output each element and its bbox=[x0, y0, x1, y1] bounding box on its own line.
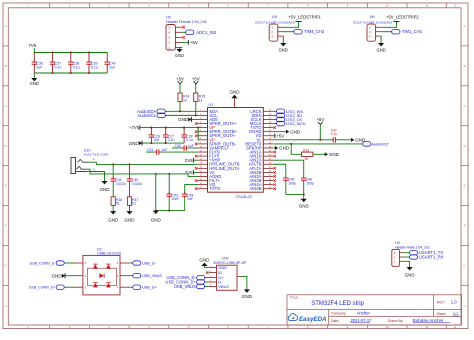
no-connect marks U3 right bbox=[273, 126, 276, 190]
svg-text:USB_D-: USB_D- bbox=[142, 261, 156, 265]
diode D2c bbox=[93, 283, 98, 288]
audio jack U10 KLS1-TSJ2-3-009 bbox=[71, 149, 108, 174]
ground bbox=[376, 43, 385, 52]
rev cell bbox=[437, 300, 457, 305]
no-connect ID pin bbox=[206, 271, 209, 274]
svg-text:1k: 1k bbox=[199, 99, 203, 103]
svg-text:GND: GND bbox=[175, 53, 184, 58]
junction bbox=[195, 114, 197, 116]
svg-text:100p: 100p bbox=[306, 181, 314, 185]
net port I2S3_WS bbox=[273, 109, 303, 114]
svg-text:0.1u: 0.1u bbox=[186, 138, 193, 142]
svg-text:GND: GND bbox=[230, 90, 241, 95]
svg-text:GND: GND bbox=[129, 141, 140, 146]
capacitor C42 bbox=[127, 164, 143, 186]
svg-text:0k: 0k bbox=[305, 157, 309, 161]
net port ADC1_IN3 bbox=[186, 30, 217, 35]
capacitor C46 bbox=[301, 178, 314, 195]
svg-text:+5V: +5V bbox=[316, 117, 324, 122]
svg-text:USB_D+: USB_D+ bbox=[142, 286, 156, 290]
drawn by cell bbox=[388, 318, 451, 323]
net port USB_VBUS at CN7 bbox=[174, 284, 209, 289]
junctions on +7V5 rail bbox=[150, 127, 199, 129]
svg-text:KLS1-TSJ2-3-009: KLS1-TSJ2-3-009 bbox=[84, 152, 108, 156]
no-connect marks U3 left bbox=[195, 122, 198, 190]
svg-text:AIN4B: AIN4B bbox=[249, 186, 261, 191]
svg-text:5: 5 bbox=[168, 26, 170, 30]
svg-text:+5V: +5V bbox=[190, 40, 198, 45]
connector U5 DG127-5.0-03P bbox=[255, 15, 294, 41]
capacitor C30 bbox=[172, 144, 198, 151]
junction bbox=[303, 194, 305, 196]
svg-text:U6: U6 bbox=[370, 15, 375, 19]
ground bbox=[151, 211, 162, 223]
svg-text:C: C bbox=[5, 104, 7, 108]
sheet cell bbox=[437, 311, 460, 316]
svg-text:100p: 100p bbox=[288, 181, 296, 185]
svg-text:1: 1 bbox=[168, 46, 170, 50]
junctions bbox=[155, 173, 171, 175]
svg-text:0.1u: 0.1u bbox=[91, 65, 98, 69]
svg-text:GND: GND bbox=[279, 146, 290, 151]
svg-text:A: A bbox=[5, 24, 7, 28]
junction bbox=[290, 143, 292, 145]
svg-text:0.1u: 0.1u bbox=[55, 65, 62, 69]
power flag +7V5 bbox=[129, 125, 140, 130]
svg-text:USB_CONN_D+: USB_CONN_D+ bbox=[29, 286, 56, 290]
ground bbox=[108, 211, 119, 223]
wire bbox=[182, 41, 188, 43]
company cell bbox=[331, 311, 370, 316]
ground bbox=[125, 211, 136, 223]
capacitor C26 bbox=[149, 128, 160, 144]
ground flipped above U3 bbox=[230, 90, 241, 99]
svg-text:1k: 1k bbox=[183, 99, 187, 103]
svg-text:1uF: 1uF bbox=[109, 65, 115, 69]
svg-text:E: E bbox=[464, 184, 466, 188]
svg-text:GND: GND bbox=[242, 294, 253, 299]
net port USB_D- bbox=[129, 261, 156, 266]
resistor R14 bbox=[178, 84, 190, 112]
svg-text:ADC1_IN3: ADC1_IN3 bbox=[196, 30, 217, 35]
svg-text:E: E bbox=[5, 184, 7, 188]
wire bbox=[273, 160, 303, 178]
svg-text:Bohdan Ancher: Bohdan Ancher bbox=[413, 318, 444, 323]
wire bbox=[156, 210, 185, 212]
svg-text:GND: GND bbox=[329, 152, 340, 157]
svg-text:C30: C30 bbox=[175, 144, 181, 148]
svg-text:51: 51 bbox=[132, 202, 136, 206]
svg-text:0.1u: 0.1u bbox=[331, 132, 338, 136]
svg-text:Date:: Date: bbox=[331, 319, 339, 323]
wire bbox=[142, 142, 184, 144]
power flag 2V5 bbox=[185, 170, 198, 175]
ground flag decoupling bbox=[129, 141, 142, 146]
wire jack tip to HP/LINE_OUTB bbox=[88, 162, 198, 164]
svg-text:U3: U3 bbox=[209, 103, 214, 107]
ground bbox=[299, 195, 310, 209]
svg-text:0.1u: 0.1u bbox=[73, 65, 80, 69]
svg-text:A: A bbox=[464, 24, 466, 28]
diode D2d bbox=[106, 283, 111, 288]
wire bbox=[282, 36, 284, 43]
wire bbox=[155, 174, 157, 211]
wire bbox=[34, 52, 107, 54]
capacitor C45 bbox=[283, 178, 296, 195]
capacitor C40 bbox=[105, 53, 116, 74]
wire jack ring to AGND bbox=[85, 169, 198, 176]
no-connect pin 3 bbox=[182, 36, 185, 39]
svg-text:C31: C31 bbox=[147, 148, 153, 152]
ground flag D2 pin2 bbox=[52, 273, 74, 278]
wire bbox=[273, 139, 331, 141]
capacitor C47 bbox=[331, 128, 338, 142]
power flag +5V bbox=[188, 40, 198, 45]
svg-text:STM32F4 LED strip: STM32F4 LED strip bbox=[311, 301, 364, 307]
svg-text:H2: H2 bbox=[166, 15, 171, 19]
svg-text:GND: GND bbox=[100, 187, 111, 192]
svg-text:U5: U5 bbox=[272, 15, 277, 19]
wire CN7 shield bbox=[242, 276, 247, 289]
power flag +5V for R14 bbox=[176, 76, 184, 83]
svg-text:EasyEDA: EasyEDA bbox=[299, 316, 327, 323]
svg-text:4: 4 bbox=[168, 31, 170, 35]
ground bbox=[279, 43, 288, 52]
capacitor C27 bbox=[163, 128, 175, 144]
svg-text:Drawn By:: Drawn By: bbox=[388, 319, 404, 323]
svg-text:0.022u: 0.022u bbox=[132, 182, 142, 186]
capacitor C44 bbox=[182, 185, 198, 211]
svg-text:1/1: 1/1 bbox=[453, 311, 459, 316]
svg-text:TIM1_CH1: TIM1_CH1 bbox=[402, 29, 423, 34]
net port I2S3_CK bbox=[273, 117, 302, 122]
svg-text:CS43L22: CS43L22 bbox=[236, 194, 252, 199]
power flag +5V for R15 bbox=[192, 76, 200, 83]
ground H3 bbox=[405, 267, 416, 277]
resistor R15 bbox=[194, 84, 206, 116]
ground flag VL bbox=[351, 138, 366, 143]
svg-text:R13: R13 bbox=[303, 148, 309, 152]
wire CN7 GND pin bbox=[204, 266, 208, 267]
ground bbox=[100, 181, 111, 192]
svg-text:+7V5: +7V5 bbox=[129, 125, 140, 130]
connector H2 Header-Female 2.54_1x5 bbox=[166, 15, 207, 50]
net port AudioSCL bbox=[137, 113, 197, 118]
junctions bbox=[150, 142, 166, 144]
resistor R17 bbox=[127, 184, 138, 211]
capacitor C31 bbox=[146, 148, 198, 155]
svg-text:1uF: 1uF bbox=[162, 148, 168, 152]
svg-text:TIM4_CH2: TIM4_CH2 bbox=[304, 29, 325, 34]
ground flipped CN7 bbox=[199, 257, 210, 266]
svg-text:TITLE:: TITLE: bbox=[290, 296, 299, 300]
connector CN7 MICRO-USB-9P-5P bbox=[209, 257, 247, 291]
net port AudioSDA bbox=[137, 109, 198, 114]
power flag +5V_LEDSTRIP1 bbox=[283, 14, 322, 27]
wire bbox=[273, 164, 286, 178]
wire bbox=[182, 31, 186, 33]
title block bbox=[287, 295, 462, 325]
svg-text:GND: GND bbox=[405, 272, 416, 277]
svg-text:+5V: +5V bbox=[276, 133, 284, 138]
junction dots cap bank bbox=[52, 51, 90, 74]
svg-text:GND: GND bbox=[125, 218, 136, 223]
power flag +5V at VD bbox=[273, 133, 284, 138]
connector U6 DG127-5.0-03P bbox=[353, 15, 392, 41]
net port USB_CONN_D+ at CN7 bbox=[165, 279, 208, 284]
power flag 2V5 bbox=[185, 158, 198, 163]
net port USB_CONN_D+ left bbox=[29, 285, 74, 290]
op-amp U3 CS43L22 audio DAC bbox=[198, 103, 274, 199]
junctions bbox=[155, 210, 171, 212]
wire bbox=[34, 72, 107, 74]
svg-text:Sheet:: Sheet: bbox=[437, 312, 447, 316]
net port TIM4_CH2 bbox=[283, 29, 325, 34]
net port USART1_TX bbox=[404, 250, 443, 255]
svg-text:GND: GND bbox=[151, 218, 162, 223]
date cell bbox=[331, 318, 372, 323]
svg-text:2021-07-17: 2021-07-17 bbox=[351, 318, 373, 323]
svg-text:1uF: 1uF bbox=[187, 197, 193, 201]
capacitor C41 bbox=[111, 164, 127, 186]
svg-text:CN7: CN7 bbox=[222, 257, 229, 261]
svg-text:VBUS: VBUS bbox=[218, 284, 229, 289]
diode array D2 USBLC6-2SC6 bbox=[74, 247, 129, 295]
capacitor C39 bbox=[86, 53, 98, 74]
ground flag DGND bbox=[273, 129, 301, 134]
junction bbox=[319, 139, 321, 141]
svg-text:USB_VBUS: USB_VBUS bbox=[174, 284, 196, 289]
svg-text:B: B bbox=[5, 64, 7, 68]
svg-text:10n: 10n bbox=[153, 138, 159, 142]
svg-text:D: D bbox=[464, 144, 466, 148]
wire bbox=[197, 128, 200, 140]
svg-text:H3: H3 bbox=[395, 241, 400, 245]
svg-text:GND: GND bbox=[279, 47, 288, 52]
wire bbox=[337, 139, 351, 141]
svg-text:3: 3 bbox=[168, 36, 170, 40]
wire bbox=[273, 143, 362, 145]
diode D2 zener bbox=[99, 273, 104, 278]
svg-text:1uF: 1uF bbox=[36, 65, 42, 69]
svg-text:AudioSCL: AudioSCL bbox=[137, 113, 157, 118]
wire bbox=[404, 261, 409, 267]
svg-text:H: H bbox=[5, 304, 7, 308]
power symbol +5V bbox=[316, 117, 324, 140]
svg-text:D: D bbox=[5, 144, 7, 148]
capacitor C43 bbox=[167, 174, 180, 211]
svg-text:51: 51 bbox=[116, 202, 120, 206]
net port I2S3_MCK bbox=[273, 121, 306, 126]
net port AudioRST bbox=[363, 142, 390, 147]
ground bbox=[175, 49, 184, 58]
capacitor C37 bbox=[50, 53, 62, 74]
svg-text:+5V: +5V bbox=[192, 76, 200, 81]
svg-text:1.0: 1.0 bbox=[451, 300, 457, 305]
net port USB_CONN_D- at CN7 bbox=[166, 275, 208, 280]
svg-text:C: C bbox=[464, 104, 466, 108]
connector H3 Header-Male 2.54_1x3 bbox=[392, 241, 430, 266]
title text bbox=[290, 296, 365, 307]
svg-text:0.1u: 0.1u bbox=[168, 138, 175, 142]
capacitor C36 bbox=[32, 53, 43, 74]
diode D2b bbox=[106, 264, 111, 269]
wire jack sleeve to ground bbox=[76, 172, 105, 182]
wire bbox=[291, 144, 301, 154]
capacitor C38 bbox=[68, 53, 80, 74]
diode D2a bbox=[93, 264, 98, 269]
capacitor C28 bbox=[181, 128, 193, 144]
svg-text:+5V: +5V bbox=[176, 76, 184, 81]
svg-text:USART1_RX: USART1_RX bbox=[419, 255, 444, 260]
IC top pin to ground bbox=[233, 98, 235, 108]
wire bbox=[380, 36, 382, 43]
wire bbox=[286, 194, 304, 196]
ground flag AD0 bbox=[178, 117, 197, 122]
svg-text:G: G bbox=[463, 263, 465, 267]
svg-text:H: H bbox=[464, 304, 466, 308]
junctions bbox=[112, 163, 130, 165]
junction bbox=[179, 110, 181, 112]
svg-text:10nF: 10nF bbox=[172, 197, 180, 201]
svg-text:GND: GND bbox=[178, 117, 189, 122]
svg-text:Header Female 2.54_1x5: Header Female 2.54_1x5 bbox=[166, 20, 207, 24]
svg-text:1uF: 1uF bbox=[188, 144, 194, 148]
net port USB_VBUS bbox=[129, 274, 162, 279]
svg-text:USB_VBUS: USB_VBUS bbox=[142, 274, 162, 278]
svg-text:GND: GND bbox=[30, 81, 39, 86]
ground flag R13 bbox=[325, 152, 340, 157]
svg-text:GND: GND bbox=[108, 218, 119, 223]
svg-text:GND: GND bbox=[299, 203, 310, 208]
svg-text:REV:: REV: bbox=[437, 301, 445, 305]
net port USART1_RX bbox=[404, 255, 443, 260]
svg-text:GND: GND bbox=[199, 257, 210, 262]
svg-text:+5V_LEDSTRIP2: +5V_LEDSTRIP2 bbox=[386, 14, 419, 19]
resistor R13 bbox=[301, 148, 324, 161]
svg-text:0.022u: 0.022u bbox=[116, 182, 126, 186]
svg-text:GND: GND bbox=[376, 47, 385, 52]
svg-text:AudioRST: AudioRST bbox=[372, 142, 390, 146]
svg-text:TSTO: TSTO bbox=[209, 186, 221, 191]
net port I2S3_SD bbox=[273, 113, 302, 118]
svg-text:G: G bbox=[5, 263, 7, 267]
svg-text:Company:: Company: bbox=[331, 312, 347, 316]
svg-text:2V5: 2V5 bbox=[185, 158, 193, 163]
wire bbox=[180, 48, 183, 50]
ground CN7 shield bbox=[242, 289, 253, 299]
power flag +5V_LEDSTRIP2 bbox=[381, 14, 420, 27]
svg-text:2: 2 bbox=[168, 41, 170, 45]
svg-text:USB_CONN_D-: USB_CONN_D- bbox=[30, 261, 57, 265]
net port USB_D+ bbox=[129, 285, 157, 290]
net port USB_CONN_D- left bbox=[30, 261, 74, 266]
wire bbox=[140, 127, 198, 129]
svg-text:+5V_LEDSTRIP1: +5V_LEDSTRIP1 bbox=[288, 14, 321, 19]
net port TIM1_CH1 bbox=[381, 29, 423, 34]
svg-text:Ancher: Ancher bbox=[357, 311, 371, 316]
svg-text:I2S3_MCK: I2S3_MCK bbox=[286, 121, 306, 126]
no-connect pin 5 bbox=[182, 26, 185, 29]
svg-text:GND: GND bbox=[52, 273, 63, 278]
svg-text:7V5: 7V5 bbox=[28, 43, 36, 48]
ground bbox=[30, 73, 39, 86]
svg-text:Header Male 2.54_1x3: Header Male 2.54_1x3 bbox=[395, 246, 429, 250]
net flag 7V5 bbox=[28, 43, 36, 52]
svg-text:GND: GND bbox=[290, 129, 301, 134]
EasyEDA logo bbox=[288, 314, 327, 323]
svg-text:B: B bbox=[464, 64, 466, 68]
resistor R16 bbox=[111, 184, 122, 211]
ground flag SPK/HP bbox=[273, 146, 290, 151]
